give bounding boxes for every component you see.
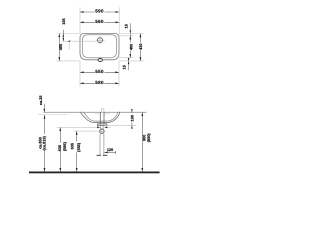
- dim ca.850 line: [44, 115, 46, 172]
- svg-text:550: 550: [95, 69, 104, 74]
- svg-text:(ca.810): (ca.810): [43, 136, 47, 151]
- basin outer rim (top view): [80, 34, 119, 60]
- dim 605 arrows: [76, 131, 78, 171]
- bowl inner profile: [83, 112, 117, 121]
- drain shaft walls: [100, 112, 104, 125]
- chain arrow up to outer bottom: [128, 58, 130, 70]
- chain arrow down to outer top: [130, 30, 132, 33]
- svg-text:605: 605: [71, 143, 75, 149]
- aux tick faucet line: [68, 41, 70, 49]
- dim 120 arrow: [105, 152, 108, 154]
- svg-text:560: 560: [95, 19, 104, 24]
- svg-text:590: 590: [95, 9, 104, 14]
- label 190: [130, 113, 134, 122]
- dim 900 line: [141, 112, 143, 171]
- dim 635 line: [59, 128, 61, 172]
- bowl outer profile: [81, 112, 120, 123]
- dim 455 line: [58, 34, 60, 61]
- extension top edge to right: [119, 33, 144, 35]
- label 430: [139, 43, 143, 51]
- extension drain flange level: [57, 125, 137, 127]
- svg-text:400: 400: [130, 44, 134, 50]
- dim 105 line: [62, 30, 64, 41]
- label ca.850: [38, 134, 47, 150]
- dim 400 arrows: [129, 36, 131, 58]
- extension top edge to left: [57, 33, 80, 35]
- countertop underside: [38, 114, 67, 116]
- dim 105 arrows: [63, 34, 65, 41]
- drain clamp arrows: [97, 126, 107, 128]
- dim 550 text: [95, 69, 105, 73]
- svg-text:(555): (555): [77, 142, 81, 152]
- aux tick mark: [68, 41, 70, 42]
- dim 120 end tick: [115, 151, 117, 154]
- svg-text:635: 635: [58, 145, 62, 151]
- trap inlet tubes: [101, 126, 104, 130]
- extension inner top to right: [117, 35, 134, 37]
- dim ca.35 line: [43, 104, 45, 112]
- floor line: [29, 172, 160, 174]
- extension bottom edge to left: [56, 60, 80, 62]
- extension line right top: [118, 7, 120, 33]
- dim 590 line: [80, 11, 119, 13]
- dim 190 line: [131, 110, 133, 129]
- svg-text:15: 15: [122, 65, 126, 69]
- countertop surface: [44, 111, 147, 113]
- dim ca.35 arrow: [43, 109, 45, 112]
- svg-text:190: 190: [130, 115, 134, 121]
- dim 590 arrows: [80, 11, 119, 13]
- extension trap center level: [74, 130, 98, 132]
- svg-text:900: 900: [142, 135, 146, 141]
- extension bottom edge to right: [119, 60, 144, 62]
- dim 560 line: [80, 21, 119, 23]
- pipe cut ticks: [97, 154, 108, 156]
- svg-text:(585): (585): [63, 141, 67, 151]
- svg-text:120: 120: [107, 148, 113, 152]
- dim 455 arrows: [58, 34, 60, 61]
- dim 550 arrows: [80, 71, 119, 73]
- dim 590 text: [95, 8, 105, 12]
- dim ca.850 arrows: [44, 115, 46, 171]
- trap circle: [100, 129, 104, 133]
- basin inner rim (top view): [83, 35, 117, 58]
- label 635: [58, 143, 61, 151]
- dim chain line right: [129, 23, 131, 58]
- drain slot: [98, 59, 102, 62]
- extension line left top: [79, 7, 81, 33]
- svg-text:15: 15: [125, 24, 129, 28]
- dim 580 text: [95, 80, 105, 84]
- dim 560 text: [95, 19, 105, 23]
- extension faucet center to left: [62, 40, 96, 42]
- dim 900 arrows: [141, 113, 143, 172]
- dim 560 arrows: [80, 21, 119, 23]
- svg-text:455: 455: [59, 44, 63, 50]
- dim 580 line: [80, 82, 119, 84]
- svg-text:580: 580: [95, 80, 104, 85]
- svg-text:ca.35: ca.35: [39, 95, 43, 105]
- faucet hole circle: [98, 38, 103, 43]
- dim 635 arrows: [59, 128, 61, 172]
- dim 550 line: [80, 71, 119, 73]
- dim 580 arrows: [80, 82, 119, 84]
- faucet hole crosshair: [96, 36, 105, 44]
- extension inner bottom to right: [117, 57, 134, 59]
- drain pipe: [100, 134, 104, 156]
- svg-text:(850): (850): [147, 133, 151, 143]
- label 400: [129, 43, 133, 51]
- overflow stub above counter: [101, 109, 104, 112]
- dim 190 arrows: [131, 109, 133, 129]
- drain flange: [98, 124, 107, 125]
- svg-text:105: 105: [62, 18, 66, 24]
- dim 605 line: [76, 131, 78, 171]
- dim 120 line: [104, 151, 115, 153]
- extension line left bottom: [79, 61, 81, 87]
- label 605: [71, 142, 74, 150]
- dim 430 arrows: [140, 34, 142, 61]
- extension line right bottom: [118, 61, 120, 86]
- trap crosshair: [99, 128, 106, 134]
- svg-text:430: 430: [139, 43, 143, 49]
- rim flange under counter: [95, 113, 110, 115]
- dim 455 label: [60, 43, 64, 51]
- dim 430 line: [139, 34, 141, 61]
